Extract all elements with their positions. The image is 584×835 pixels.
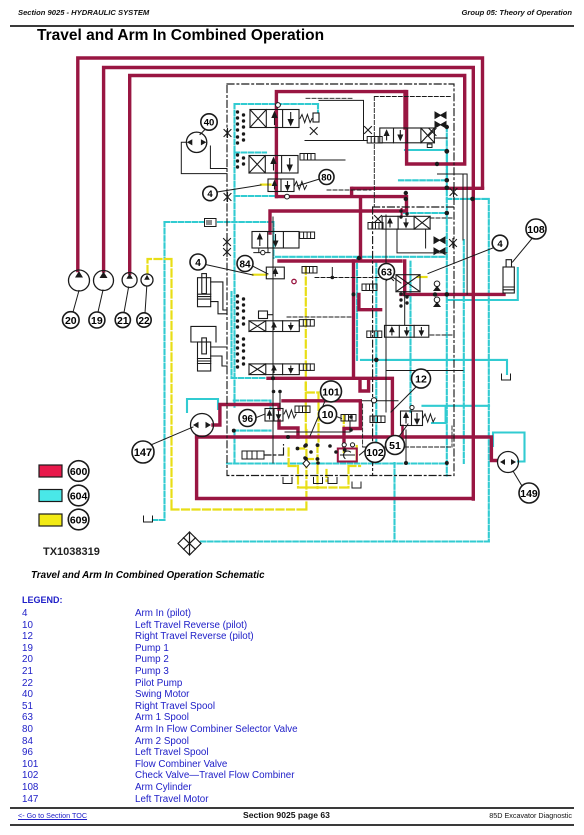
relief valve row4 [259,311,273,319]
svg-text:20: 20 [65,315,77,327]
crimson stub bank2 row1 [401,209,403,216]
svg-text:600: 600 [70,466,88,478]
arm 1 coil [362,284,377,291]
callout 4c [492,235,508,251]
wire: yellow stub to 80 valve [261,184,271,186]
swing spool end box [313,113,319,122]
wire: yellow riser to 10/102 [343,416,345,452]
schematic caption [31,570,265,581]
wire: cyan loop left travel motor [187,399,218,412]
wire: cyan v x410.5 + top [276,257,447,412]
wire: arm supply y259 [279,261,405,293]
footer right [489,811,572,820]
callout 40 [201,114,217,130]
svg-text:63: 63 [381,267,393,278]
header rule [10,25,574,27]
leader 4b [206,265,254,276]
tank yellow 1 [283,478,292,484]
callout 102 [365,442,385,462]
leader 10 [336,417,341,419]
callout 600 [68,461,89,482]
wire: yellow riser near 102 [356,446,358,461]
port plug X top [224,129,231,138]
TX number [43,546,100,558]
header left [18,8,149,17]
wire 96 pilot stub [279,392,281,409]
svg-text:101: 101 [322,386,340,398]
wire: yellow pilot mesh box [289,445,360,488]
footer center [243,810,330,820]
wire 63 to rowC [404,293,406,325]
bank2 rowC coil [367,331,382,338]
wire right manifold drains [438,174,468,294]
swing spool spring [300,115,312,123]
restrictor dash-dot stub [264,445,284,455]
junction dots [445,178,450,183]
tank at cyan left riser [144,516,153,522]
header right [461,8,572,17]
callout 609 [68,509,89,530]
callout 604 [68,485,89,506]
wire: 84 valve drains [254,248,270,253]
wire: cyan right travel pilot [423,406,490,423]
wire x406 bottom [405,430,407,463]
callout 10 [319,405,337,423]
wire: pilot pump riser [148,259,307,510]
page title [37,27,324,45]
svg-text:10: 10 [322,409,334,421]
swing spool valve [250,110,299,128]
x mark combiner pilot [365,127,372,134]
inner dashed box bank1 [287,97,452,448]
wire: cyan dashed v at bank1 rows3-4 [232,292,267,378]
tank at cyan right drop [502,374,511,380]
callout 12 [412,369,431,388]
bank1 row1 caps [236,110,239,113]
pilot pump 22 [141,274,153,286]
wire: return U bottom [197,437,474,499]
tank yellow 4 [352,482,361,488]
footer rule 2 [10,824,574,826]
wire: cyan bottom return bus [201,540,489,542]
leader 101 [310,401,325,436]
wire: 96 output to combiner [279,401,360,437]
flow combiner selector valve 80 [268,179,294,192]
check valve inside 102 [341,451,355,459]
wire: cyan v x394.5 [393,463,395,542]
callout 21 [115,312,130,327]
wire combiner to cyan [434,137,447,139]
leader 21 [124,287,129,313]
bank2 rowC valve [385,325,429,337]
leader 51 [399,424,408,437]
callout 51 [386,436,405,455]
wire: cyan v x376 [375,262,377,463]
wire: yellow riser x305.8 [305,267,307,430]
restrictor box [242,451,264,459]
left cylinder 2 [191,326,227,371]
svg-text:108: 108 [527,224,545,236]
wire: cyan v x463.8 [463,240,465,463]
svg-text:19: 19 [91,315,103,327]
pilot coil near 101 [295,406,310,413]
port plug X 84a [224,238,231,247]
callout 19 [89,312,105,328]
callout 84 [237,256,253,272]
wire: cyan return bus y463 [227,462,447,464]
svg-text:80: 80 [321,173,332,184]
bank1 row4 caps [236,294,239,297]
wire: main to arm cylinder [401,293,504,296]
wire: combiner valve feed [403,92,406,128]
swatch 604 cyan [39,490,62,502]
svg-text:4: 4 [497,239,503,250]
wire: combiner to 102 [344,401,360,446]
leader 22 [145,286,147,313]
shuttle circle row1 [276,103,281,108]
tank yellow 2 [314,478,323,484]
pump 19 [94,271,114,291]
x mark row1 right [310,128,317,135]
wire: combiner supply y196 [270,188,407,233]
leader 12 [391,387,416,412]
control valve manifold box [227,84,454,476]
wire: cyan solid to arm cylinder [447,268,518,300]
callout 80 [319,170,334,185]
wire: pump3 inner frame [130,76,465,274]
leader 80 [297,179,320,186]
x plug right boundary [450,188,457,197]
callout 22 [137,313,151,327]
wire: parallel drop x356 [352,261,355,378]
wire: yellow stub to 63 spool [418,276,427,278]
filter diamond [178,532,201,555]
callout 4a [203,186,217,200]
left travel spool valve 96 [265,409,283,422]
x plug right boundary b [450,239,457,248]
bank1 row2 caps [236,153,239,156]
port plug X bottom [224,193,231,202]
tank yellow 3 [328,478,337,484]
svg-text:51: 51 [389,440,401,452]
footer rule 1 [10,807,574,809]
arm 1 spool valve 63 [396,275,420,296]
wire: 51 spool feed [401,426,404,443]
leader 63 [393,277,402,283]
load checks bank2 [434,281,440,291]
legend rows [22,608,27,619]
wire: 51 valve drains [397,229,447,253]
wire y370 [386,215,463,412]
left travel motor 147 [191,414,214,437]
wire: combiner bus y378 [268,378,392,437]
port plug X 84b [224,248,231,257]
leader 40 [200,129,206,135]
svg-text:4: 4 [207,189,213,200]
footer left link [18,811,87,820]
leader 102 [360,450,366,455]
wire center vertical x273 [272,217,274,463]
svg-text:147: 147 [134,447,152,459]
wire: yellow stub to 84 spool [253,274,267,276]
x mark near 63 [387,274,394,281]
svg-text:609: 609 [70,515,88,527]
wire: travel crossover y437 [197,437,496,461]
bank2 row1 caps [399,209,402,212]
callout 147 [132,441,154,463]
right travel spool valve 51b [401,411,423,426]
leader 19 [98,290,103,312]
wire: cyan pilot bus y222 [165,222,274,258]
x mark near 51 [375,216,382,223]
pilot coil near 51 leader [370,416,385,423]
wire pilot tee 63 [331,268,333,278]
wire: yellow jog near 101 [306,383,319,446]
right travel motor 149 [498,452,519,473]
combiner coil [367,137,382,144]
left cylinder 1 [198,274,228,314]
bank1 row5 caps [236,334,239,337]
open diamond on cyan bus [303,460,310,468]
bank2 row2 caps [399,292,402,295]
svg-text:12: 12 [415,373,427,385]
wire row1 to combiner coil [305,140,367,142]
callout 96 [239,410,256,427]
right travel coil [368,223,383,230]
schematic SVG [0,0,584,600]
wire: cyan h y180 [399,179,447,181]
bank1 row4 coil [299,320,314,327]
svg-text:22: 22 [138,316,150,327]
right travel spool valve 51 [382,216,430,229]
wire: bank2 row2 feed [359,294,381,309]
callout 101 [321,381,342,402]
wire: cyan stub row2 [235,151,267,153]
wire swing motor ports [181,142,227,173]
wire row1 to bowties [319,100,364,140]
callout 63 [379,264,395,280]
svg-text:4: 4 [195,258,201,269]
leader 20 [73,291,79,313]
wire row2 right [316,159,345,161]
callout 149 [519,483,539,503]
pump 20 [69,270,90,291]
wire: cyan to x488 riser [447,199,489,542]
wire: cyan dashed box around 96 valve [234,401,271,431]
leader 84 [253,266,269,274]
leader 4c [428,248,494,274]
bank1 row2 coil [300,154,315,161]
wire: cyan left riser to tank [152,222,165,520]
svg-text:102: 102 [366,447,384,459]
shuttle circle on supply y196 [285,194,290,199]
arm cylinder 108 [503,260,514,293]
travel flow combiner valve row [380,128,435,143]
bank1 row5 coil [299,364,314,371]
tiny box below checks [427,144,432,148]
arm 2 pilot coil (yellow fed) [302,267,317,274]
wire: cyan box around swing spool [235,104,319,463]
callout 108 [526,219,546,239]
bank2 boundary [373,207,454,476]
bank1 row2 valve [249,156,298,174]
legend heading [22,595,63,605]
arm 2 spool valve 84 [252,232,299,249]
svg-text:40: 40 [204,118,215,129]
pump 21 [122,273,137,288]
shuttle circle on combiner line [362,398,398,403]
bank1 row5 valve [249,364,299,375]
svg-text:149: 149 [520,488,538,500]
leader 108 [513,239,533,263]
swing motor 40 [186,132,206,152]
load check pair mid [434,237,445,243]
wire: pump2 mid frame [104,68,474,500]
check valve 102 crimson body [338,449,357,462]
leader 96 [257,414,266,418]
svg-text:21: 21 [117,315,129,327]
wire: cyan tank drop right [361,360,507,374]
arm 2 sub valve [266,267,284,279]
svg-text:84: 84 [239,259,251,270]
wire: long center drop x360.5 [359,197,362,259]
wire: right supply bus y188 [353,187,483,190]
x mark check row [429,129,436,136]
svg-text:604: 604 [70,491,88,503]
wire: cyan stub under 80 valve [235,195,277,197]
swatch 600 red [39,465,62,477]
MO pilot box [205,219,217,227]
svg-text:96: 96 [242,414,254,425]
leader 4a [217,185,261,192]
shuttle circles above 102 [342,405,414,447]
leader 147 [152,427,193,445]
leader 149 [513,471,522,486]
swatch 609 yellow [39,514,62,526]
pilot coil near 10 [341,415,356,422]
load check pair top [435,112,446,118]
wire: cyan loop right travel motor [493,433,525,462]
wire: cyan right riser x446.8 [446,127,448,476]
wire 96 valve drains [285,420,350,432]
wire: pump1 outer frame [78,58,483,271]
wire: cyan solid near combiner [405,150,447,180]
bank1 row4 valve [249,321,299,332]
wire: left motor to 96 valve [213,405,279,426]
callout 4b [190,254,206,270]
callout 20 [63,312,80,329]
wire: cyan h y213 stub [404,212,447,214]
arm 2 spool coil [300,232,315,239]
